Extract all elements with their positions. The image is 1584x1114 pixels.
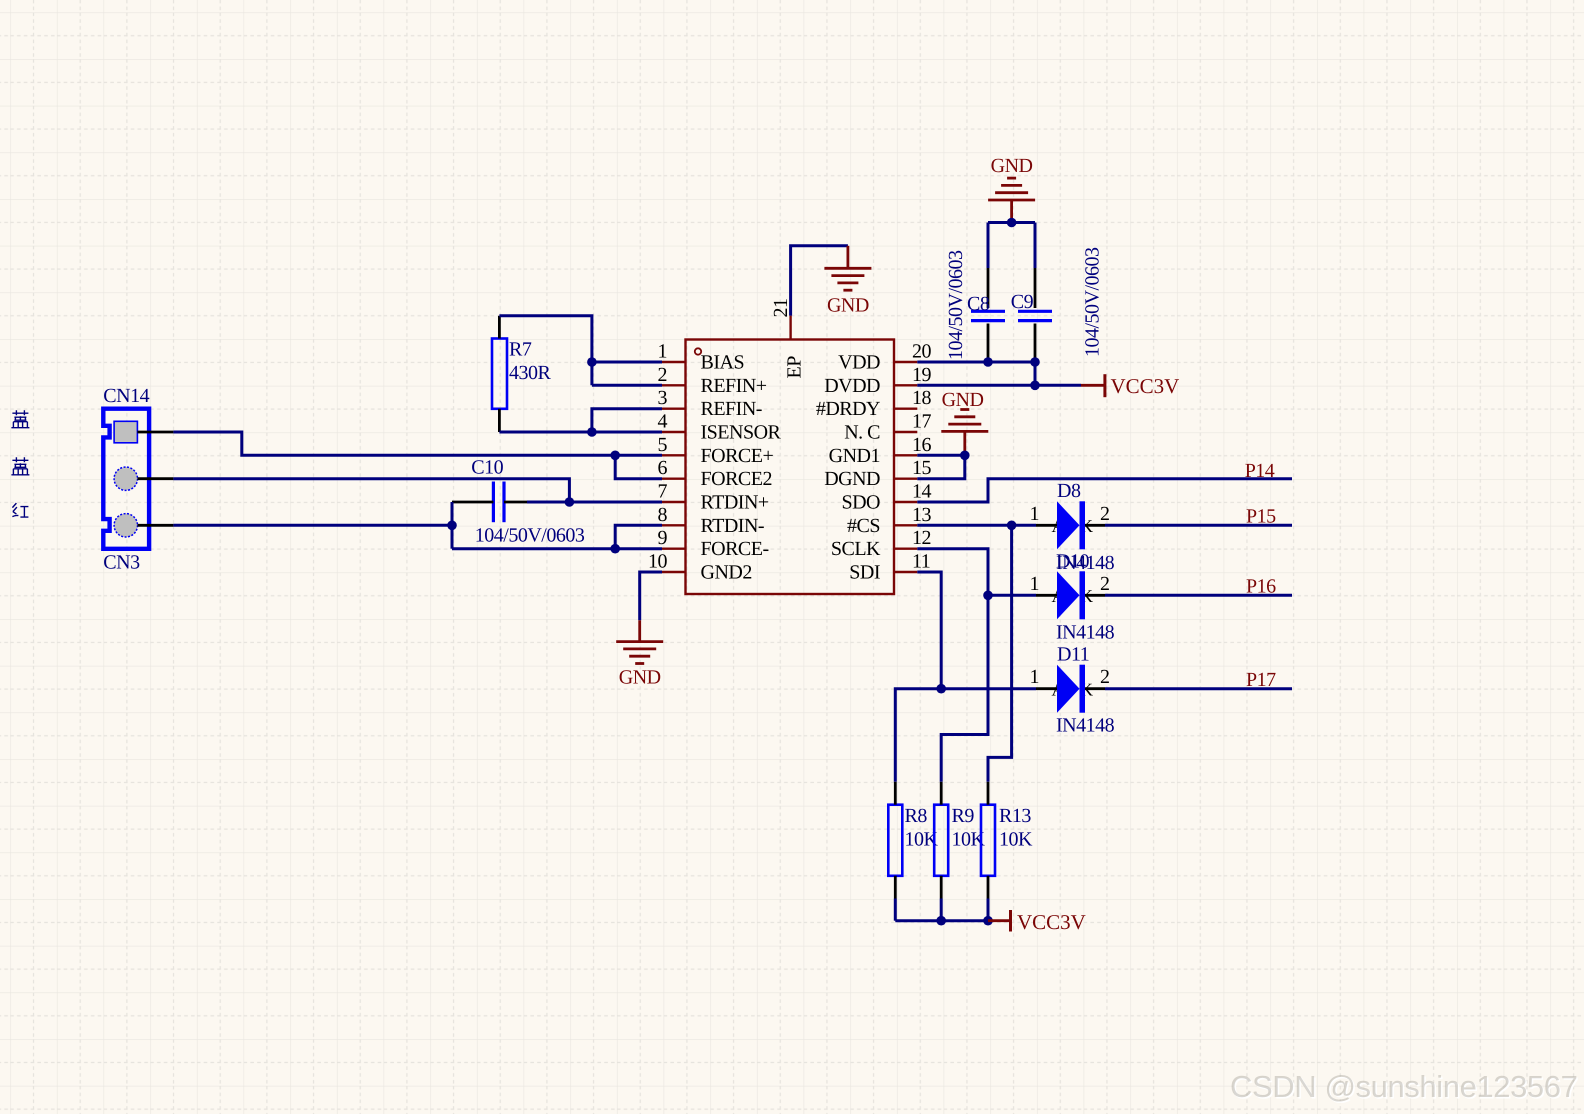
wire bottom VCC rail [895,919,988,922]
wire SDI (pin11) down [917,572,941,689]
svg-text:2: 2 [1100,503,1110,525]
GND stem (pin16) [963,431,966,455]
R13 top lead [987,782,990,805]
diode D8 anode lead [1036,524,1057,527]
wire pin 21 to ground [791,246,848,316]
resistor R8 [888,805,902,876]
junction CN pad3 / C10 left [447,521,457,531]
junction top GND rail [1007,218,1017,228]
svg-text:FORCE+: FORCE+ [701,445,774,467]
R8 bottom lead [894,876,897,899]
pin 1 indicator [695,348,701,354]
wire C10 left vertical [451,502,454,549]
svg-text:2: 2 [1100,666,1110,688]
svg-text:R7: R7 [509,339,532,361]
svg-text:EP: EP [784,356,806,379]
VCC3V power pin (bottom) [988,919,1011,922]
svg-text:19: 19 [912,364,932,386]
wire R9 bottom [940,899,943,921]
svg-text:R8: R8 [905,805,928,827]
capacitor C10 plates [492,482,495,523]
junction #CS / D8 / pull-up [1007,521,1017,531]
svg-text:DGND: DGND [824,468,880,490]
pin 5 stub (FORCE+) [662,454,686,456]
svg-text:10: 10 [648,551,668,573]
watermark CSDN [1230,1069,1577,1105]
junction C8 / VDD [983,357,993,367]
wire D11 cathode to P17 [1105,687,1292,690]
svg-text:12: 12 [912,527,931,549]
diode D8 cathode bar [1080,501,1086,549]
wire CN pad1 to FORCE+ (pin5) [173,432,615,455]
ground symbol (top, flipped) [988,199,1035,202]
C9 top lead [1034,268,1037,308]
C9 bottom lead [1034,324,1037,363]
C8 bottom lead [987,324,990,363]
svg-text:2: 2 [1100,573,1110,595]
svg-text:P15: P15 [1246,506,1276,528]
junction pins 1-2 / R7 [587,357,597,367]
pin 2 stub (REFIN+) [662,384,686,386]
svg-text:11: 11 [912,551,930,573]
ground symbol (pin10) [616,640,663,643]
wire C9 to DVDD row [1034,362,1037,385]
svg-text:14: 14 [912,481,932,503]
diode D11 anode lead [1036,687,1057,690]
svg-text:IN4148: IN4148 [1056,622,1115,644]
diode D11 cathode bar [1080,665,1086,713]
junction GND1 [960,451,970,461]
wire C9 top [1034,223,1037,269]
svg-text:3: 3 [658,387,668,409]
R9 bottom lead [940,876,943,899]
svg-text:C9: C9 [1011,291,1034,313]
wire CN pad3 to RTDIN- net [173,524,452,527]
svg-text:GND1: GND1 [829,445,880,467]
pin 20 stub (VDD) [894,361,917,363]
diode D8 cathode lead [1085,524,1105,527]
svg-text:15: 15 [912,457,932,479]
pin 9 stub (FORCE-) [662,548,686,550]
svg-text:FORCE-: FORCE- [701,538,769,560]
svg-text:D11: D11 [1057,644,1089,666]
pin 6 stub (FORCE2) [662,478,686,480]
svg-text:9: 9 [658,527,668,549]
wire R7 top to pins 1-2 [499,316,592,386]
svg-text:21: 21 [770,299,792,318]
pin 13 stub (#CS) [894,524,917,526]
junction pin5/pin6 [610,451,620,461]
svg-text:104/50V/0603: 104/50V/0603 [1082,247,1104,357]
wire D10 anode [988,594,1036,597]
junction pin7/C10 [565,497,575,507]
wire DVDD (pin19) to VCC3V [917,384,1081,387]
diode D10 anode lead [1036,594,1057,597]
pin 12 stub (SCLK) [894,548,917,550]
svg-text:BIAS: BIAS [701,352,745,374]
C8 top lead [987,268,990,308]
svg-text:13: 13 [912,504,932,526]
wire DGND (pin15) to ground [917,455,965,478]
svg-text:1: 1 [1030,666,1040,688]
svg-text:GND2: GND2 [701,562,752,584]
junction pins 3-4 / R7 [587,427,597,437]
VCC3V power bar (top) [1103,374,1106,397]
svg-text:CN14: CN14 [103,385,149,407]
ground symbol (pin16, flipped) [941,430,988,433]
svg-text:#CS: #CS [847,515,880,537]
svg-text:20: 20 [912,341,932,363]
R9 top lead [940,782,943,805]
wire pin 10 to ground [640,572,662,620]
svg-text:SDO: SDO [841,492,880,514]
label 红 (red) wire 3 [12,503,28,517]
CN pad 1 (square) [114,421,137,443]
svg-text:430R: 430R [509,362,552,384]
diode D10 triangle [1057,571,1080,619]
pin 1 stub (BIAS) [662,361,686,363]
svg-text:1: 1 [1030,503,1040,525]
pin 16 stub (GND1) [894,454,917,456]
GND stem (pin21) [847,246,850,268]
svg-text:104/50V/0603: 104/50V/0603 [945,250,967,360]
pin 21 stub (EP pad) [789,316,791,340]
CN pad 3 (round) [114,514,137,537]
resistor R7 [492,339,507,409]
svg-text:1: 1 [658,341,668,363]
wire C8-C9 top rail [988,221,1035,224]
wire #CS (pin13) row [917,524,1036,527]
svg-text:SCLK: SCLK [831,538,881,560]
diode D10 cathode lead [1085,594,1105,597]
svg-text:FORCE2: FORCE2 [701,468,772,490]
capacitor C9 plates [1018,310,1052,313]
CN pad 2 (round) [114,467,137,490]
pin 11 stub (SDI) [894,571,917,573]
svg-text:IN4148: IN4148 [1056,715,1115,737]
junction pin8/pin9 [610,544,620,554]
diode D11 cathode lead [1085,687,1105,690]
pin 19 stub (DVDD) [894,384,917,386]
pin 4 stub (ISENSOR) [662,431,686,433]
svg-text:REFIN-: REFIN- [701,398,762,420]
svg-text:RTDIN-: RTDIN- [701,515,765,537]
C10 left lead [452,501,493,504]
diode D8 triangle [1057,501,1080,549]
svg-text:104/50V/0603: 104/50V/0603 [475,525,585,547]
junction SDI / D11 [936,684,946,694]
ic body (20-pin sensor ADC) [686,340,895,595]
pin 7 stub (RTDIN+) [662,501,686,503]
R7 bottom lead [498,409,501,432]
wire R8 bottom [894,899,897,921]
pin 17 stub (N. C) [894,431,917,433]
junction R9 / rail [936,916,946,926]
svg-text:5: 5 [658,434,668,456]
svg-text:IN4148: IN4148 [1056,552,1115,574]
wire C10 right to pin 7 [527,501,662,504]
ground symbol (pin21) [824,267,871,270]
connector CN14/CN3 outline [103,409,149,549]
svg-text:6: 6 [658,457,668,479]
svg-text:2: 2 [658,364,668,386]
svg-text:SDI: SDI [849,562,880,584]
svg-text:P17: P17 [1246,669,1276,691]
diode D11 triangle [1057,665,1080,713]
wire pin 3 [592,409,662,432]
wire pin 5 stub join [615,454,662,457]
junction C9 / VDD row [1030,357,1040,367]
svg-text:C8: C8 [967,293,990,315]
svg-text:1: 1 [1030,573,1040,595]
R8 top lead [894,782,897,805]
GND stem (pin10) [638,620,641,641]
svg-text:P16: P16 [1246,576,1276,598]
svg-text:18: 18 [912,387,932,409]
C10 right lead [504,501,527,504]
junction C9 / DVDD [1030,381,1040,391]
junction R13 / rail [983,916,993,926]
svg-text:4: 4 [658,411,668,433]
wire pin 4 / R7 bottom [499,431,662,434]
CN pad1 lead [137,431,173,434]
resistor R13 [981,805,995,876]
svg-text:C10: C10 [471,457,503,479]
label 蓝 (blue) wire 1 [11,410,29,428]
pin 14 stub (SDO) [894,501,917,503]
svg-text:GND: GND [942,389,984,411]
resistor R9 [934,805,948,876]
CN pad2 lead [138,477,174,480]
wire SCLK (pin12) down [917,549,988,782]
capacitor C8 plates [971,310,1005,313]
svg-text:D8: D8 [1057,480,1081,502]
svg-text:R13: R13 [999,805,1031,827]
svg-text:DVDD: DVDD [824,375,880,397]
wire R13 bottom [987,899,990,921]
pin 15 stub (DGND) [894,478,917,480]
wire pin 8 to pin 9 [615,525,662,548]
wire C8 top [987,223,990,269]
svg-text:N. C: N. C [844,422,880,444]
svg-text:R9: R9 [952,805,975,827]
svg-text:VCC3V: VCC3V [1111,374,1180,398]
svg-text:GND: GND [619,667,661,689]
svg-text:16: 16 [912,434,932,456]
junction SCLK / D10 [983,591,993,601]
R7 top lead [498,316,501,339]
label 蓝 (blue) wire 2 [11,457,29,475]
diode D10 cathode bar [1080,571,1086,619]
svg-text:VCC3V: VCC3V [1017,910,1086,934]
svg-text:CN3: CN3 [103,552,140,574]
svg-text:REFIN+: REFIN+ [701,375,767,397]
GND stem (top) [1010,200,1013,223]
svg-text:ISENSOR: ISENSOR [701,422,782,444]
svg-text:GND: GND [991,155,1033,177]
svg-text:#DRDY: #DRDY [816,398,880,420]
wire CN pad2 to RTDIN+ (pin7) [173,479,569,502]
pin 3 stub (REFIN-) [662,408,686,410]
svg-text:VDD: VDD [838,352,880,374]
wire pin 6 to pin 5 [615,455,662,478]
wire pin 1 [592,361,662,364]
wire SDO (pin14) to P14 [917,479,1292,502]
VCC3V power bar (bottom) [1009,910,1012,932]
wire VDD (pin20) [917,361,1035,364]
wire D10 cathode to P16 [1105,594,1292,597]
pin 10 stub (GND2) [662,571,686,573]
wire pin 2 [592,384,662,387]
svg-text:7: 7 [658,481,668,503]
svg-text:RTDIN+: RTDIN+ [701,492,769,514]
svg-text:P14: P14 [1245,460,1275,482]
pin 18 stub (#DRDY) [894,408,917,410]
wire #CS to R13 [988,525,1012,782]
svg-text:GND: GND [827,295,869,317]
wire D8 cathode to P15 [1105,524,1292,527]
VCC3V power pin (top) [1081,384,1105,387]
pin 8 stub (RTDIN-) [662,524,686,526]
wire GND1 (pin16) [917,454,965,457]
wire pin 9 row [452,547,662,550]
wire D11 anode row / R8 branch [895,689,1036,782]
svg-text:10K: 10K [999,829,1033,851]
R13 bottom lead [987,876,990,899]
svg-text:8: 8 [658,504,668,526]
CN pad3 lead [138,524,174,527]
svg-text:17: 17 [912,411,932,433]
